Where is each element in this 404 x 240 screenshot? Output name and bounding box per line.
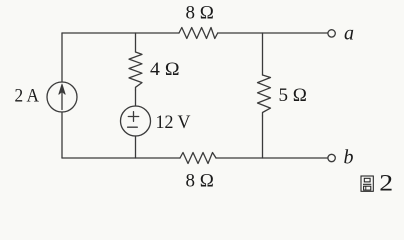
plus sign inside source [128, 112, 138, 122]
wire middle vertical upper [135, 33, 137, 52]
svg-text:12 V: 12 V [156, 112, 191, 133]
svg-text:4 Ω: 4 Ω [150, 59, 180, 80]
svg-text:8 Ω: 8 Ω [186, 171, 214, 192]
svg-text:b: b [344, 147, 354, 169]
figure label 2 [379, 169, 393, 196]
resistor R bottom 8ohm zigzag [180, 153, 216, 164]
wire bottom right horizontal [216, 157, 328, 159]
svg-text:8 Ω: 8 Ω [186, 3, 214, 24]
svg-text:a: a [344, 23, 354, 45]
wire left vertical upper [61, 33, 63, 82]
wire bottom left horizontal [62, 157, 180, 159]
wire middle vertical lower [135, 136, 137, 158]
minus sign inside source [128, 126, 138, 128]
resistor R mid 4ohm zigzag vertical [129, 52, 142, 90]
wire right vertical upper [262, 33, 264, 75]
figure label glyph 圖 drawn [361, 176, 373, 191]
resistor R right 5ohm zigzag vertical [258, 75, 271, 116]
wire right vertical lower [262, 116, 264, 158]
voltage source V1 circle 12V [121, 106, 151, 136]
current source I1 circle 2A [47, 82, 77, 112]
wire top right horizontal [218, 32, 328, 34]
resistor R top 8ohm zigzag [179, 28, 218, 39]
current source arrow [61, 86, 63, 110]
svg-text:5 Ω: 5 Ω [279, 85, 307, 106]
wire middle between resistor and source [135, 90, 137, 106]
svg-text:2 A: 2 A [15, 86, 40, 107]
wire left vertical lower [61, 112, 63, 158]
terminal b circle [328, 154, 335, 161]
terminal a circle [328, 30, 335, 37]
svg-text:2: 2 [379, 169, 393, 196]
wire top left horizontal [62, 32, 179, 34]
